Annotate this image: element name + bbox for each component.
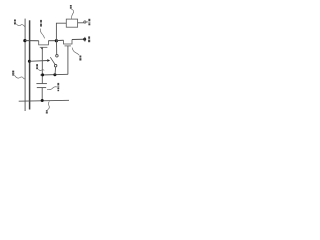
node dot B (centre junction) xyxy=(55,39,58,42)
switch arm arrowhead xyxy=(47,59,50,62)
node dot A on bus1 / wire A junction xyxy=(23,39,26,42)
capacitor C1 bottom plate xyxy=(37,87,46,89)
switch bottom contact circle xyxy=(54,64,57,67)
node dot G (cap lead to bottom wire) xyxy=(41,99,44,102)
node dot C (right terminal) xyxy=(83,38,86,41)
wire from box right to output circle terminal xyxy=(78,22,84,24)
leader arc from T2 gate to L6 xyxy=(72,48,79,56)
label L9 (right of capacitor, vertical text) xyxy=(57,83,59,91)
transistor T1 gate contact blob xyxy=(41,48,43,49)
node dot F (switch bottom junction) xyxy=(53,73,56,76)
leader from L1 to bus 1 xyxy=(16,24,25,27)
switch top contact circle xyxy=(56,55,59,58)
leader from L7 to bus1 xyxy=(15,75,26,79)
transistor T1 gate bar xyxy=(40,46,48,48)
bus line 1 (left vertical rail) xyxy=(24,19,26,111)
wire from node B up to box U1 xyxy=(56,23,66,41)
label L8 (left of switch) xyxy=(36,64,38,69)
tick right of circle xyxy=(86,21,87,23)
label L10 (bottom, below wire) xyxy=(46,110,48,113)
label L6 (right of T2 gate) xyxy=(79,56,81,61)
node dot E (storage node junction) xyxy=(41,73,44,76)
leader from L3 to box top xyxy=(71,9,73,19)
box U1 (rectangular block) xyxy=(66,19,77,27)
leader from L9 to capacitor xyxy=(47,87,57,90)
leader from L10 to bottom wire xyxy=(48,101,50,110)
wire A : node B to T2 xyxy=(56,39,63,41)
capacitor lower lead xyxy=(41,88,43,101)
node dot D on bus2 xyxy=(28,60,31,63)
switch arm xyxy=(50,57,55,64)
transistor T2 gate lead down xyxy=(67,46,69,75)
transistor T2 gate bar xyxy=(65,45,71,47)
label L4 (right of circle terminal) xyxy=(88,19,90,26)
bottom horizontal wire xyxy=(19,99,69,102)
wire A (main horizontal row) : bus1 to T1 xyxy=(25,40,39,42)
label L5 (right of node C) xyxy=(88,36,90,42)
wire row at y~74.6 xyxy=(40,73,68,76)
wire A : T1 drain to node dot B xyxy=(48,40,56,42)
transistor T2 (source step, channel, drain stub) xyxy=(64,40,73,45)
label L3 (above box) xyxy=(70,5,72,9)
storage node vertical (T1 gate lead down to capacitor) xyxy=(41,48,43,83)
label L7 (left, mid) xyxy=(12,71,14,76)
terminal bar at node C xyxy=(84,37,86,42)
transistor T1 (source step, channel, drain stub) xyxy=(39,41,49,45)
label L1 (top-left reference numeral) xyxy=(14,20,16,25)
capacitor C1 top plate xyxy=(36,83,47,85)
open circle terminal xyxy=(84,21,86,23)
bus line 2 (second vertical rail) xyxy=(29,20,31,109)
label L2 (vertical numeral near bus2 top) xyxy=(40,20,42,27)
wire from bus2 node D to switch arm (row-select) xyxy=(29,60,47,63)
circuit schematic figure xyxy=(0,0,119,120)
wire A : T2 drain to output node xyxy=(72,38,84,40)
leader from L8 to storage vertical xyxy=(38,69,44,70)
leader from L2 down to wire A xyxy=(40,29,44,39)
wire from switch bottom circle down to node F xyxy=(54,67,57,75)
switch S1: stem from node B down xyxy=(56,41,58,55)
